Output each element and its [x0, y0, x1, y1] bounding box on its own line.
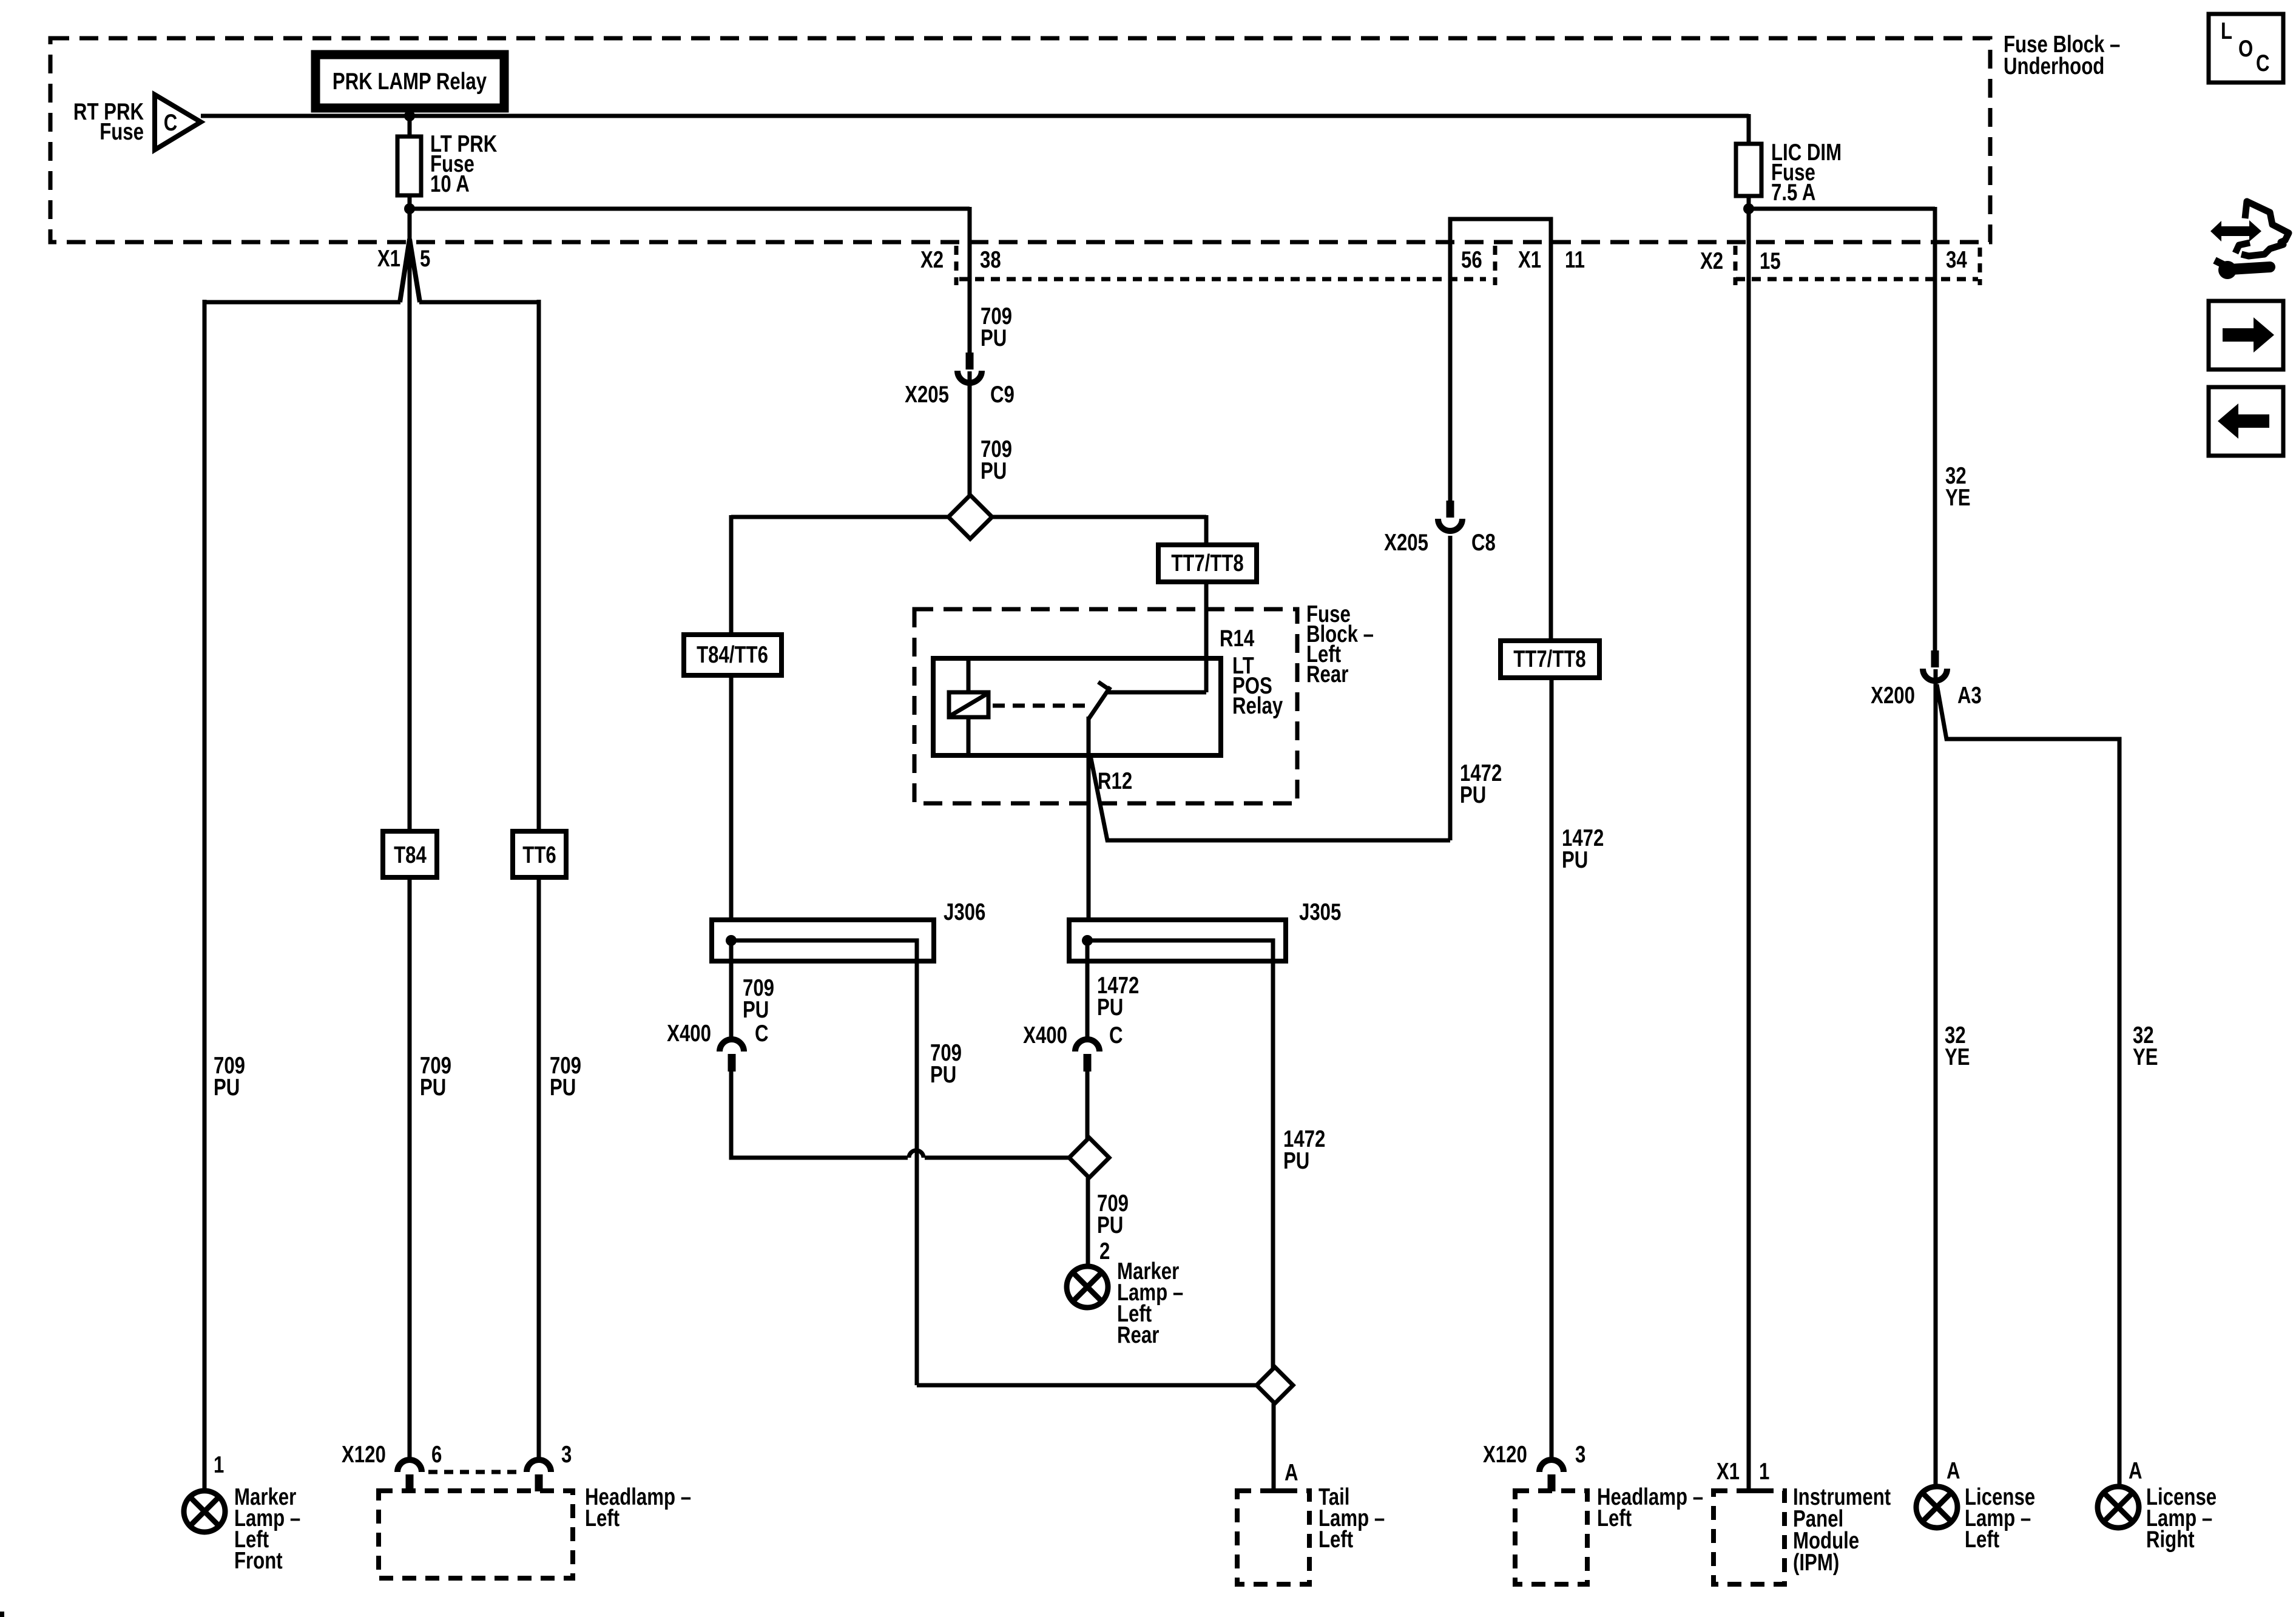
splice S2 diamond [1069, 1138, 1109, 1178]
svg-text:PU: PU [1097, 1212, 1123, 1238]
svg-text:A3: A3 [1957, 683, 1982, 709]
junction block J306 [712, 920, 934, 961]
svg-text:11: 11 [1565, 247, 1585, 273]
wire W2: fuse output to X2/38 drop (674,344)-(1598,344) [410, 207, 970, 211]
svg-text:56: 56 [1461, 247, 1482, 273]
svg-text:Right: Right [2146, 1527, 2195, 1553]
wire: S2 down to marker lamp rear [1086, 1178, 1090, 1266]
wire: bus drop to splice S3 [917, 1383, 1257, 1388]
svg-text:PU: PU [214, 1075, 240, 1101]
wire: J306 left leg to X400 C [729, 940, 734, 1037]
svg-text:PU: PU [1562, 847, 1588, 873]
mini separator 34 [1978, 248, 1982, 285]
J305 internal bus [1087, 940, 1273, 964]
svg-text:X1: X1 [1518, 247, 1541, 273]
icon arrow previous (left) [2209, 387, 2283, 456]
svg-text:Front: Front [234, 1548, 283, 1574]
PRK LAMP Relay label box [316, 55, 504, 108]
junction box TT7/TT8 (upper) [1158, 545, 1257, 582]
junction box T84/TT6 [684, 635, 782, 675]
wire: A3 to license lamp left [1934, 669, 1938, 1487]
svg-text:1: 1 [1759, 1459, 1769, 1485]
svg-text:15: 15 [1760, 248, 1781, 274]
relay fixed contact to R14 [1106, 690, 1206, 695]
svg-text:10 A: 10 A [430, 171, 470, 197]
svg-text:Relay: Relay [1232, 693, 1283, 719]
mini separator X2/38 [954, 246, 959, 285]
svg-text:TT7/TT8: TT7/TT8 [1513, 646, 1586, 672]
svg-text:YE: YE [1945, 1044, 1970, 1070]
wire: X1/5 center drop [408, 241, 412, 831]
junction dot J306 [726, 935, 737, 946]
wire: J306 bus drop (709 PU) [915, 961, 919, 1385]
wire: C9 to splice diamond [968, 371, 972, 496]
svg-text:X200: X200 [1871, 683, 1915, 709]
wire: S3 down to tail lamp pin A [1272, 1403, 1276, 1491]
icon arrow next (right) [2209, 301, 2283, 370]
junction block J305 [1069, 920, 1286, 961]
wire: X2 pin 15 down to IPM [1747, 209, 1751, 1491]
svg-text:A: A [2129, 1458, 2142, 1484]
component box Tail Lamp Left [1237, 1491, 1309, 1584]
svg-text:6: 6 [431, 1442, 442, 1468]
wire: drop to connector X2 pin 38 [968, 207, 972, 355]
svg-text:2: 2 [1099, 1238, 1110, 1264]
wire: left branch down to marker lamp front [203, 300, 207, 1491]
wire: LIC DIM output [1747, 196, 1751, 218]
svg-text:TT7/TT8: TT7/TT8 [1171, 550, 1244, 576]
svg-text:X1: X1 [377, 246, 400, 272]
wire: T84/TT6 to J306 [729, 675, 734, 940]
component box Instrument Panel Module [1714, 1491, 1784, 1584]
wire W1: RT PRK feed (331,191)-(2882,191) [201, 114, 1749, 118]
svg-text:R14: R14 [1220, 626, 1255, 652]
svg-text:X400: X400 [667, 1021, 711, 1047]
wire: S1 left to T84/TT6 [731, 515, 948, 519]
lamp: Marker Lamp Left Rear [1067, 1266, 1108, 1308]
svg-text:7.5 A: 7.5 A [1771, 180, 1815, 206]
junction box TT6 [513, 831, 566, 877]
connector X200 A3 [1931, 650, 1939, 667]
svg-text:Rear: Rear [1117, 1322, 1160, 1348]
svg-text:A: A [1285, 1460, 1298, 1486]
svg-text:3: 3 [561, 1442, 572, 1468]
component box Headlamp Left (front) [379, 1491, 573, 1578]
wire: TT7/TT8 to X120 pin 3 (right headlamp) [1550, 678, 1554, 1457]
connector X120 pin 6 [397, 1460, 422, 1472]
junction box TT7/TT8 (right) [1501, 641, 1599, 678]
icon wiring repair (double arrow + outline + wrench) [2210, 201, 2289, 279]
svg-text:38: 38 [980, 247, 1001, 273]
svg-text:Underhood: Underhood [2004, 53, 2104, 79]
icon LOC box [2209, 14, 2283, 83]
wire: R12 down to J305 [1087, 717, 1091, 940]
connector X120 pin 3 [527, 1460, 551, 1472]
wire: riser to X205 C8 [1448, 536, 1453, 840]
svg-text:YE: YE [2133, 1044, 2158, 1070]
svg-text:Rear: Rear [1306, 661, 1349, 687]
wire: S1 right to TT7/TT8 [992, 515, 1206, 519]
svg-text:C: C [164, 110, 178, 136]
svg-text:X2: X2 [920, 247, 944, 273]
wire: R12 slant to C8 riser [1090, 755, 1450, 840]
svg-text:C: C [755, 1021, 769, 1047]
wire: W1 to LT PRK fuse [408, 116, 412, 138]
svg-text:PRK LAMP Relay: PRK LAMP Relay [333, 69, 487, 95]
svg-text:X205: X205 [905, 382, 949, 408]
svg-text:PU: PU [930, 1062, 956, 1088]
wire: J305 bus drop (1472 PU) [1271, 961, 1275, 1368]
wire: branch bus left (337,498) [204, 300, 400, 305]
svg-text:PU: PU [743, 997, 769, 1023]
relay R14/R12 LT POS Relay box [933, 658, 1221, 755]
splice S3 diamond [1257, 1367, 1293, 1403]
connector X205 C9 [966, 353, 974, 370]
dotted connector underline X2-56 [959, 277, 1486, 282]
connector X400 C (left) [720, 1039, 744, 1052]
svg-text:TT6: TT6 [522, 842, 556, 868]
relay coil pin wires [967, 658, 971, 692]
relay control dashed link [993, 704, 1086, 708]
wire: fuse block loop 56-11 (staple) [1450, 219, 1551, 641]
svg-text:C: C [2256, 50, 2270, 76]
connector X400 C (right) [1075, 1039, 1099, 1052]
J306 internal bus [731, 940, 917, 964]
wire: T84 to X120 pin 6 [408, 877, 412, 1457]
svg-text:PU: PU [981, 458, 1007, 484]
wire: branch bus right (693,498)-(890,498) [419, 300, 539, 305]
svg-text:L: L [2221, 18, 2232, 44]
svg-text:X400: X400 [1023, 1022, 1067, 1048]
svg-text:PU: PU [981, 325, 1007, 351]
svg-text:Fuse: Fuse [100, 119, 144, 145]
svg-text:X1: X1 [1717, 1459, 1740, 1485]
wire: pin 34 drop (32 YE) [1933, 207, 1937, 650]
fuse LIC DIM 7.5A [1736, 144, 1761, 196]
wire: X400 C to splice S2 [1086, 1070, 1090, 1139]
svg-text:T84: T84 [394, 842, 427, 868]
svg-text:PU: PU [550, 1075, 576, 1101]
svg-text:PU: PU [420, 1075, 446, 1101]
wire: J305 left leg to X400 C [1086, 940, 1090, 1037]
svg-text:X120: X120 [1483, 1442, 1527, 1468]
wire hop over J306 bus drop [909, 1150, 923, 1158]
wire: X400 C to marker rear splice [731, 1070, 908, 1158]
svg-text:1: 1 [214, 1452, 224, 1478]
svg-text:C8: C8 [1471, 530, 1496, 556]
relay coil [949, 692, 988, 717]
svg-text:J305: J305 [1299, 899, 1341, 925]
svg-text:34: 34 [1946, 247, 1967, 273]
svg-text:5: 5 [420, 246, 430, 272]
wire: TT6 to X120 pin 3 [537, 877, 541, 1457]
wire: down to LIC DIM fuse [1747, 114, 1751, 144]
svg-text:X120: X120 [342, 1442, 386, 1468]
connector X120 pin 3 (right) [1539, 1460, 1564, 1472]
junction dot LIC DIM output [1743, 203, 1754, 214]
wire: right branch down to TT6 [537, 300, 541, 831]
wire: LIC DIM output to pin 34 drop [1749, 207, 1935, 211]
wire: A3 branch to license lamp right [1937, 684, 2119, 1487]
svg-text:X2: X2 [1700, 248, 1723, 274]
connector X1 pin 5 pass-through legs [400, 239, 410, 302]
node C: RT PRK Fuse source triangle [155, 95, 201, 150]
splice S1 diamond [948, 495, 992, 539]
fuse block left rear dashed outline [914, 609, 1297, 803]
svg-text:PU: PU [1283, 1148, 1309, 1174]
svg-text:PU: PU [1460, 782, 1486, 808]
fuse LT PRK 10A [397, 137, 421, 195]
svg-text:X205: X205 [1384, 530, 1428, 556]
svg-text:PU: PU [1097, 994, 1123, 1021]
pin A tail lamp [1263, 1488, 1284, 1493]
svg-text:Left: Left [1597, 1505, 1632, 1531]
svg-text:O: O [2238, 36, 2253, 62]
svg-text:R12: R12 [1098, 768, 1132, 794]
junction dot at LT PRK fuse tap [404, 110, 415, 121]
svg-text:C9: C9 [990, 382, 1015, 408]
lamp: License Lamp Right [2098, 1487, 2139, 1528]
lamp: Marker Lamp Left Front [184, 1491, 225, 1532]
page corner mark [0, 1612, 4, 1617]
junction dot LT PRK output [404, 203, 415, 214]
relay switch blade [1089, 687, 1110, 719]
svg-text:3: 3 [1575, 1442, 1585, 1468]
component box Headlamp Left (right) [1515, 1491, 1587, 1584]
junction dot J305 [1082, 935, 1093, 946]
svg-text:Left: Left [1965, 1527, 1999, 1553]
svg-text:C: C [1109, 1022, 1123, 1048]
dotted connector underline 15-34 [1736, 277, 1978, 282]
lamp: License Lamp Left [1916, 1487, 1957, 1528]
svg-text:T84/TT6: T84/TT6 [697, 642, 768, 668]
svg-text:Left: Left [585, 1505, 620, 1531]
dotted link X120 6-3 [428, 1470, 520, 1474]
wire: LT PRK fuse output [408, 195, 412, 241]
svg-text:J306: J306 [944, 899, 985, 925]
svg-text:A: A [1947, 1458, 1960, 1484]
junction box T84 [383, 831, 437, 877]
fuse block underhood dashed outline [50, 38, 1990, 242]
connector X205 C8 [1447, 501, 1454, 518]
svg-text:Left: Left [1319, 1527, 1353, 1553]
svg-text:(IPM): (IPM) [1793, 1550, 1839, 1576]
svg-text:YE: YE [1945, 485, 1971, 511]
